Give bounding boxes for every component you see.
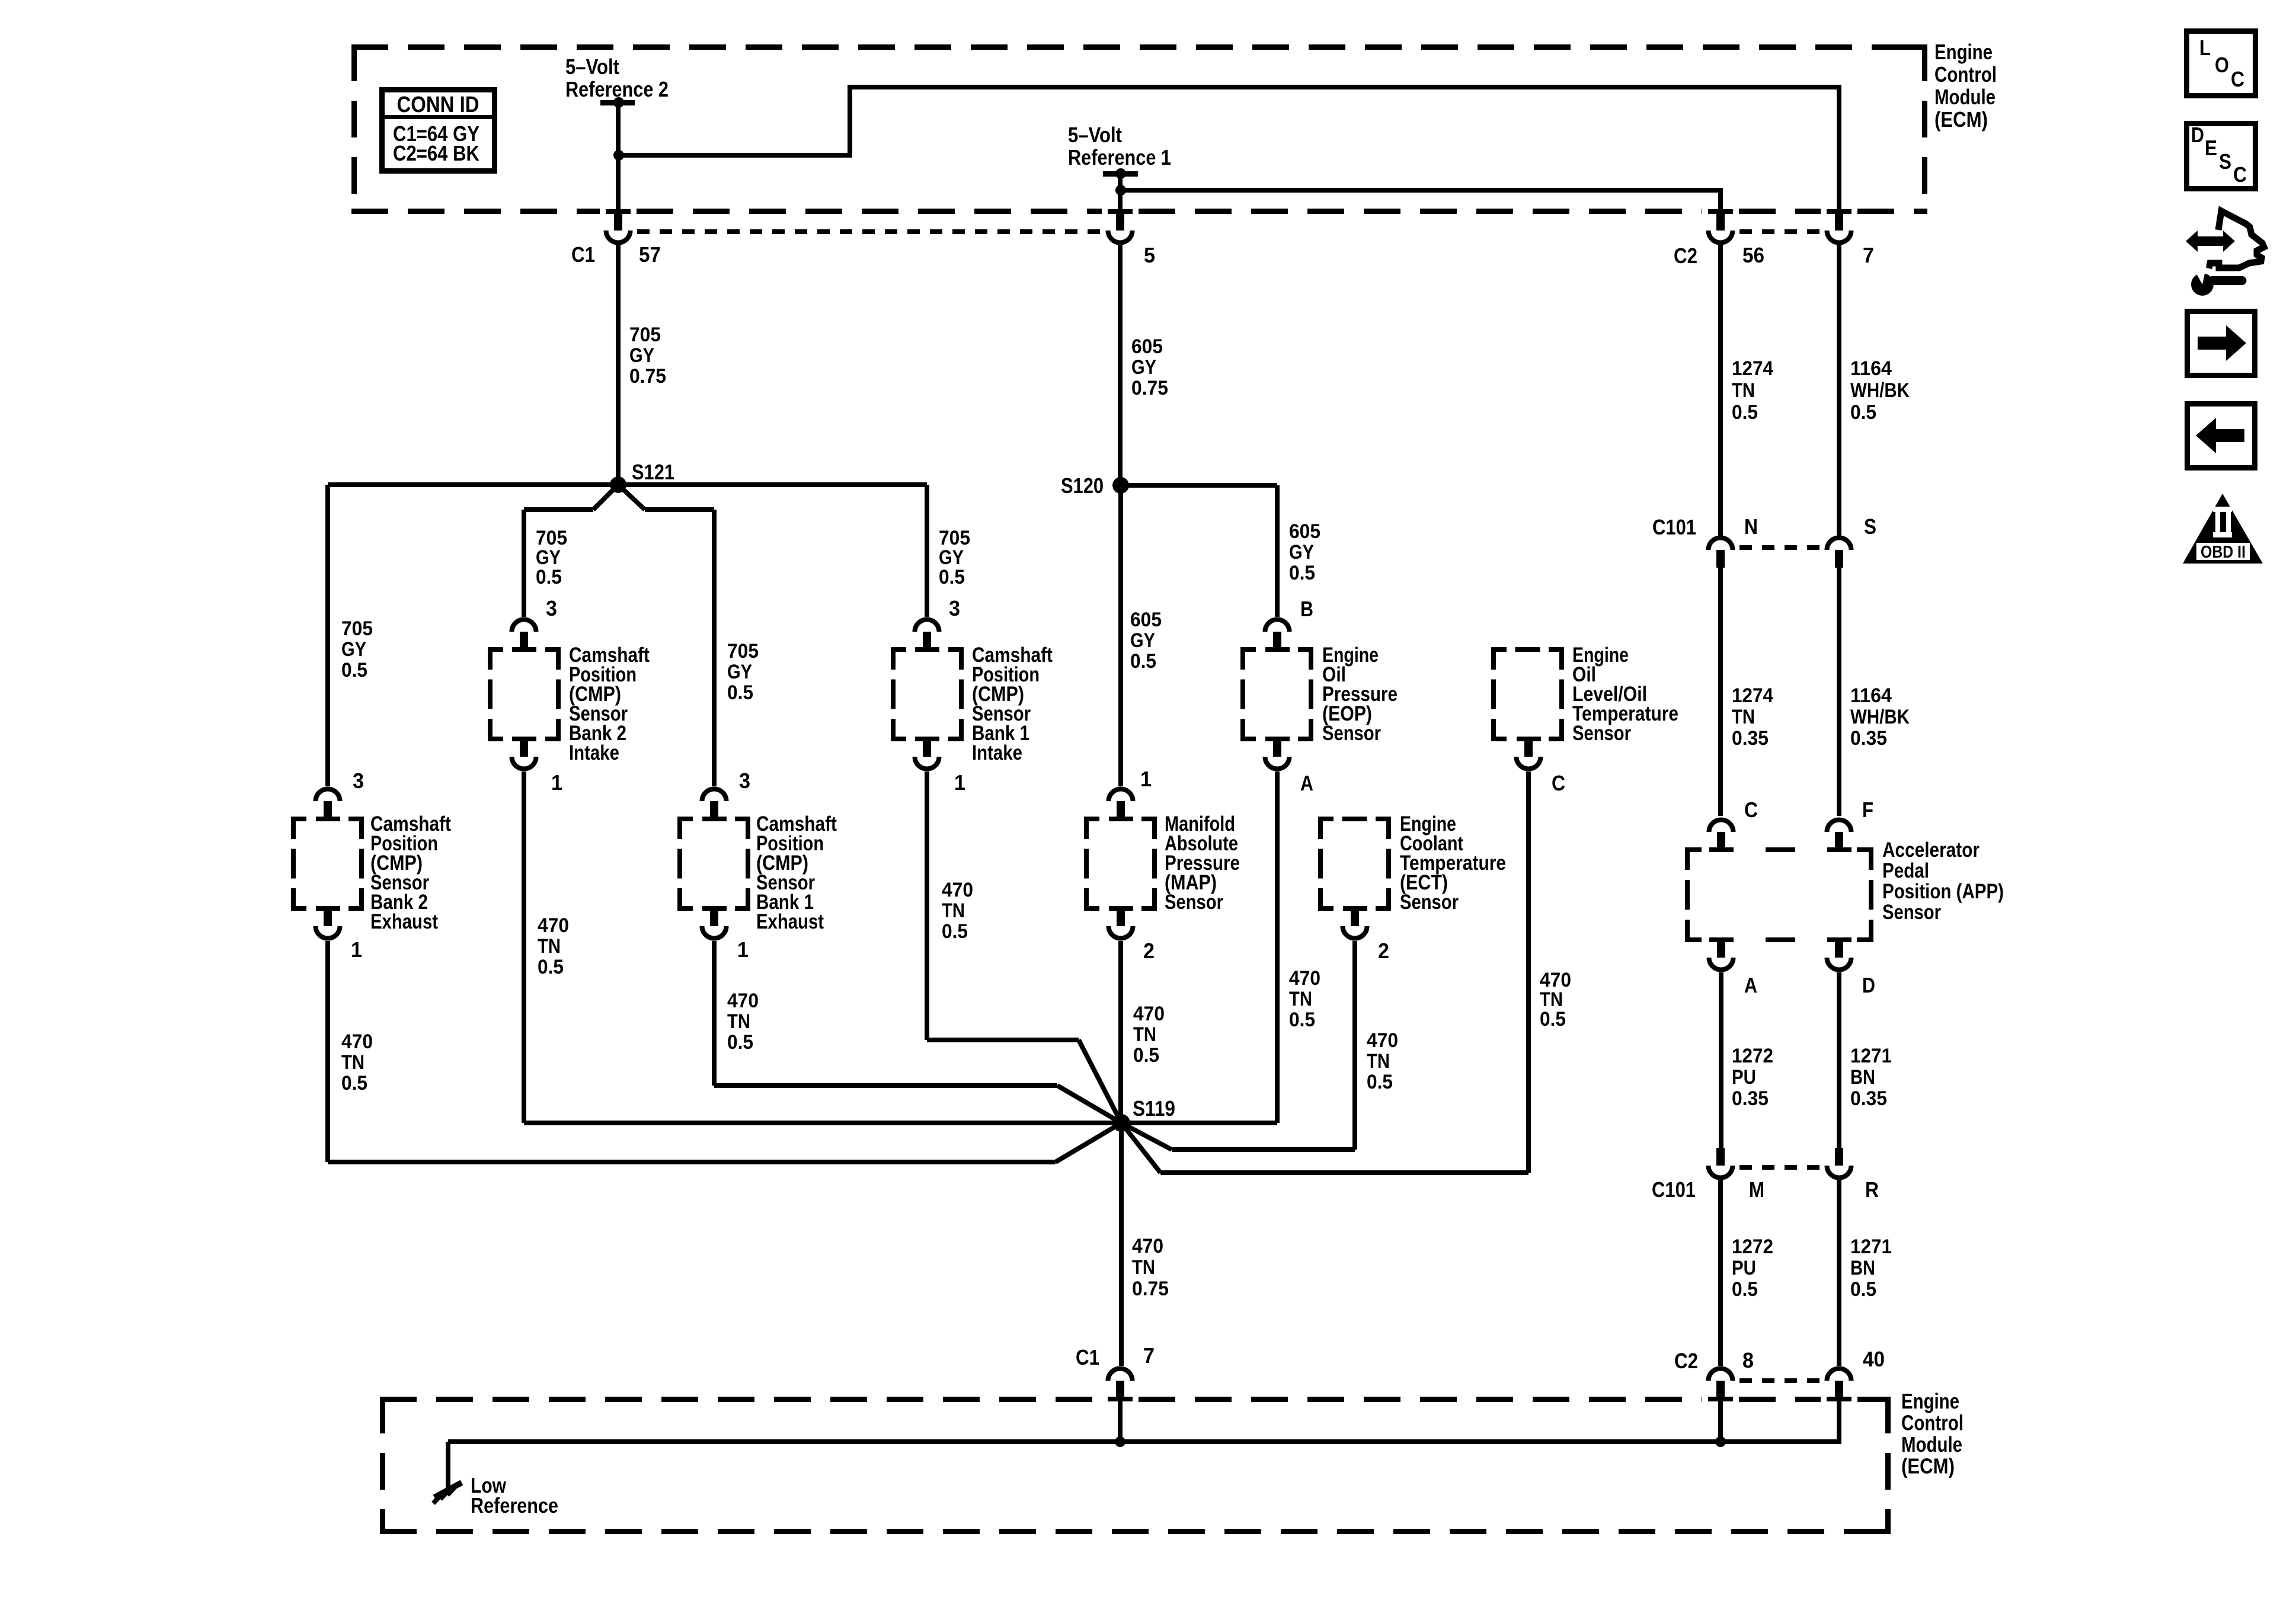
svg-text:PU: PU — [1732, 1066, 1756, 1089]
wire 5V ref1 vertical — [1118, 174, 1123, 190]
icon next-view arrow box — [2188, 312, 2255, 376]
svg-text:40: 40 — [1863, 1347, 1885, 1371]
svg-text:1272: 1272 — [1732, 1235, 1773, 1258]
wire S121 fan left — [593, 485, 618, 510]
connector C2 pin 40 — [1827, 1369, 1851, 1381]
svg-text:0.75: 0.75 — [629, 365, 666, 388]
wire 1274 TN 0.35 (C101-N to APP-C) — [1718, 568, 1723, 816]
svg-text:5–Volt: 5–Volt — [565, 55, 619, 79]
svg-text:1164: 1164 — [1850, 684, 1892, 707]
svg-text:0.5: 0.5 — [1130, 650, 1156, 673]
svg-text:A: A — [1744, 973, 1757, 997]
svg-text:TN: TN — [727, 1010, 750, 1033]
connector C1 pin 5 — [1108, 209, 1133, 214]
pin 1 MAP — [1108, 789, 1133, 802]
wire 470 TN 0.5 (B1 exhaust to S119) — [712, 941, 717, 1086]
svg-text:TN: TN — [1133, 1023, 1156, 1046]
svg-text:7: 7 — [1863, 243, 1874, 267]
svg-text:Position (APP): Position (APP) — [1882, 880, 2004, 903]
ground (low reference) — [433, 1483, 462, 1503]
svg-text:0.5: 0.5 — [341, 1072, 367, 1094]
svg-text:470: 470 — [1289, 967, 1320, 990]
connector C101 pin N — [1709, 538, 1733, 550]
svg-text:L: L — [2199, 36, 2211, 60]
svg-text:3: 3 — [353, 769, 364, 793]
wire 470 TN 0.5 (ECT to S119) — [1352, 941, 1357, 1150]
svg-text:GY: GY — [629, 344, 654, 367]
svg-text:470: 470 — [1132, 1235, 1163, 1257]
terminal 5-Volt Reference 1 — [1103, 171, 1138, 177]
connector C101 pin R — [1835, 1148, 1843, 1166]
svg-text:WH/BK: WH/BK — [1850, 379, 1910, 402]
svg-text:0.5: 0.5 — [1133, 1044, 1159, 1067]
icon prev-view arrow box — [2188, 404, 2255, 468]
svg-text:1: 1 — [551, 770, 562, 795]
pin C oil level sensor — [1517, 737, 1541, 741]
svg-text:Pedal: Pedal — [1882, 859, 1929, 882]
sensor box CMP Bank 2 Exhaust — [291, 817, 306, 821]
wire S121 bus — [328, 482, 927, 487]
svg-text:605: 605 — [1130, 609, 1162, 631]
connector line C101 lower (dotted) — [1739, 1165, 1820, 1170]
wire 1271 BN 0.5 (C101-R to C2-40) — [1837, 1180, 1841, 1366]
wire 1164 WH/BK 0.5 (C2-7 to C101-S) — [1837, 245, 1841, 536]
wire 705 GY 0.5 (to CMP B1 intake) — [925, 485, 929, 617]
connector C2 pin 8 — [1709, 1369, 1733, 1381]
svg-text:S119: S119 — [1133, 1096, 1175, 1121]
sensor box Accelerator Pedal Position (APP) — [1685, 847, 1702, 852]
svg-text:0.5: 0.5 — [727, 681, 753, 704]
sensor box Engine Coolant Temperature (ECT) — [1318, 817, 1334, 821]
wire 470 TN 0.5 (MAP to S119) — [1118, 941, 1123, 1123]
wire 470 TN 0.75 (S119 to C1-7) — [1119, 1123, 1124, 1366]
svg-text:5: 5 — [1144, 243, 1155, 267]
connector C1 pin 7 (bottom) — [1108, 1369, 1133, 1381]
svg-text:B: B — [1300, 597, 1313, 621]
connector line C2 (dotted) — [1739, 229, 1820, 234]
svg-text:S121: S121 — [632, 460, 674, 484]
wire S121 fan right — [618, 485, 645, 510]
svg-text:BN: BN — [1850, 1066, 1875, 1089]
svg-text:OBD II: OBD II — [2201, 543, 2246, 562]
svg-text:Sensor: Sensor — [1572, 722, 1631, 745]
svg-text:Sensor: Sensor — [1165, 891, 1223, 914]
svg-text:Intake: Intake — [972, 741, 1022, 764]
pin 3 CMP B1 intake — [915, 619, 939, 632]
connector C2 pin 56 — [1708, 209, 1733, 214]
wire 705 GY 0.5 (to CMP B2 intake) — [522, 510, 526, 617]
pin 3 CMP B1 exhaust — [702, 789, 727, 802]
svg-text:705: 705 — [629, 324, 661, 346]
svg-text:O: O — [2215, 53, 2229, 77]
svg-text:C2: C2 — [1674, 244, 1697, 268]
svg-text:Sensor: Sensor — [1400, 891, 1459, 914]
wire 470 TN 0.5 (oil level to S119) — [1526, 772, 1531, 1173]
svg-text:C: C — [2231, 67, 2244, 91]
svg-text:S: S — [2219, 149, 2231, 174]
junction 5V ref2 branch — [613, 150, 624, 161]
svg-text:Sensor: Sensor — [1882, 901, 1941, 924]
icon LOC box — [2187, 31, 2256, 96]
svg-text:470: 470 — [942, 879, 973, 901]
svg-text:M: M — [1749, 1177, 1764, 1202]
svg-text:0.5: 0.5 — [1540, 1008, 1566, 1030]
svg-text:TN: TN — [538, 935, 561, 958]
svg-text:0.5: 0.5 — [1289, 562, 1315, 584]
svg-text:1: 1 — [1140, 767, 1152, 791]
connector C1 pin 57 — [606, 209, 631, 214]
svg-text:Control: Control — [1901, 1411, 1964, 1435]
svg-text:0.35: 0.35 — [1732, 727, 1769, 750]
svg-text:0.5: 0.5 — [1367, 1071, 1393, 1093]
svg-text:0.5: 0.5 — [1732, 1278, 1758, 1301]
svg-text:1274: 1274 — [1732, 357, 1773, 380]
svg-text:0.5: 0.5 — [341, 659, 367, 681]
wire 705 GY 0.5 (to CMP B1 exhaust) — [712, 510, 717, 786]
svg-text:3: 3 — [949, 596, 960, 620]
svg-text:Reference: Reference — [471, 1493, 558, 1518]
sensor box Manifold Absolute Pressure (MAP) — [1084, 817, 1099, 821]
svg-text:C101: C101 — [1652, 1177, 1696, 1202]
pin F APP — [1827, 820, 1851, 832]
wire S120 branch right to EOP — [1121, 483, 1277, 488]
svg-text:BN: BN — [1850, 1257, 1875, 1279]
svg-text:S: S — [1864, 514, 1876, 539]
svg-text:1: 1 — [351, 937, 362, 962]
svg-text:7: 7 — [1143, 1343, 1155, 1368]
pin D APP — [1827, 937, 1851, 942]
splice S119 — [1112, 1114, 1130, 1132]
svg-text:1271: 1271 — [1850, 1045, 1892, 1067]
svg-text:PU: PU — [1732, 1257, 1756, 1279]
connector C101 pin S — [1827, 538, 1851, 550]
wire S119 bus left — [524, 1121, 1121, 1125]
wire C2-40 into ECM — [1837, 1401, 1841, 1444]
svg-text:470: 470 — [1133, 1003, 1165, 1025]
pin A EOP — [1265, 737, 1290, 741]
wire 705 GY 0.5 (to CMP B2 exhaust) — [325, 485, 330, 786]
wire C2-8 into ECM — [1718, 1401, 1723, 1442]
svg-text:TN: TN — [1732, 706, 1755, 728]
svg-text:S120: S120 — [1061, 473, 1104, 498]
svg-text:1271: 1271 — [1850, 1235, 1892, 1258]
svg-text:1: 1 — [737, 937, 749, 962]
splice S121 — [610, 476, 626, 493]
svg-text:TN: TN — [1367, 1050, 1390, 1073]
sensor box CMP Bank 1 Intake — [891, 647, 906, 652]
icon OBD II triangle — [2183, 494, 2263, 564]
svg-text:0.5: 0.5 — [942, 920, 968, 943]
pin 1 CMP B2 exhaust — [316, 906, 340, 911]
svg-text:C1: C1 — [1076, 1345, 1099, 1369]
wire 605 GY 0.5 (S120 to MAP) — [1118, 485, 1123, 786]
svg-text:5–Volt: 5–Volt — [1068, 123, 1122, 147]
svg-text:0.75: 0.75 — [1132, 1278, 1169, 1300]
svg-text:D: D — [2191, 123, 2204, 147]
wire S119 bus right to EOP — [1121, 1121, 1277, 1125]
svg-text:0.5: 0.5 — [536, 566, 562, 588]
svg-text:605: 605 — [1289, 520, 1320, 543]
icon DESC box — [2187, 123, 2256, 189]
wire 470 TN 0.5 (B2 intake to S119) — [522, 772, 526, 1123]
wire low reference bus — [448, 1439, 1839, 1444]
svg-text:WH/BK: WH/BK — [1850, 706, 1910, 728]
svg-text:TN: TN — [1289, 988, 1312, 1010]
connector line C2 bottom (dotted) — [1739, 1378, 1820, 1383]
svg-text:A: A — [1300, 771, 1313, 795]
svg-text:1274: 1274 — [1732, 684, 1773, 707]
svg-text:C2=64 BK: C2=64 BK — [393, 141, 479, 165]
connector line C101 upper (dotted) — [1739, 545, 1820, 550]
sensor box CMP Bank 2 Intake — [488, 647, 503, 652]
svg-text:3: 3 — [546, 596, 557, 620]
svg-text:470: 470 — [727, 990, 759, 1012]
svg-text:0.35: 0.35 — [1732, 1087, 1769, 1110]
svg-text:0.5: 0.5 — [939, 566, 965, 588]
wire C1-7 into ECM — [1118, 1401, 1123, 1442]
splice S120 — [1112, 477, 1129, 494]
svg-text:0.5: 0.5 — [1850, 1278, 1876, 1301]
svg-text:TN: TN — [1132, 1256, 1155, 1279]
pin A APP — [1709, 937, 1734, 942]
svg-text:R: R — [1865, 1177, 1879, 1202]
svg-text:0.75: 0.75 — [1131, 377, 1168, 399]
sensor box Engine Oil Pressure (EOP) — [1240, 647, 1256, 652]
ECM bottom dashed box — [380, 1397, 1891, 1534]
wire 470 TN 0.5 (B2 exhaust to S119) — [325, 941, 330, 1162]
ECM top box corner patches — [1904, 44, 1927, 50]
svg-text:Intake: Intake — [569, 741, 619, 764]
svg-text:1272: 1272 — [1732, 1045, 1773, 1067]
svg-text:0.5: 0.5 — [538, 956, 564, 978]
svg-text:1: 1 — [954, 770, 965, 795]
pin 2 ECT — [1343, 906, 1367, 911]
pin B EOP — [1265, 619, 1290, 632]
svg-text:470: 470 — [538, 914, 569, 937]
terminal 5-Volt Reference 2 — [600, 100, 635, 105]
wire 5V ref2 down to C1-57 — [616, 155, 621, 209]
svg-text:GY: GY — [341, 638, 366, 661]
junction dot C2-8 bus — [1715, 1436, 1726, 1447]
pin 3 CMP B2 exhaust — [316, 789, 340, 802]
svg-text:0.5: 0.5 — [1289, 1009, 1315, 1031]
svg-text:E: E — [2205, 136, 2217, 160]
svg-text:3: 3 — [739, 769, 750, 793]
ECM top dashed box (Engine Control Module) — [351, 44, 1927, 214]
svg-text:Engine: Engine — [1901, 1389, 1959, 1413]
wire 5V ref1 down to C1-5 — [1118, 190, 1123, 209]
svg-text:470: 470 — [1367, 1029, 1398, 1052]
svg-text:Module: Module — [1934, 85, 1996, 109]
svg-text:Module: Module — [1901, 1432, 1962, 1457]
connector C2 pin 7 — [1827, 209, 1851, 214]
svg-text:0.35: 0.35 — [1850, 727, 1887, 750]
svg-text:N: N — [1744, 514, 1758, 539]
svg-text:C: C — [2233, 162, 2247, 187]
svg-text:Engine: Engine — [1934, 40, 1993, 64]
wire 1271 BN 0.35 (APP-D to C101-R) — [1837, 972, 1841, 1148]
svg-text:2: 2 — [1378, 939, 1389, 963]
connector line C1 (dotted) — [637, 229, 1101, 234]
wire 1164 WH/BK 0.35 (C101-S to APP-F) — [1837, 568, 1841, 816]
svg-text:GY: GY — [1130, 629, 1155, 652]
pin 1 CMP B1 intake — [915, 737, 939, 741]
svg-text:470: 470 — [341, 1030, 373, 1053]
wire 5V ref2 vertical to junction — [616, 103, 621, 155]
sensor box CMP Bank 1 Exhaust — [677, 817, 693, 821]
svg-text:1164: 1164 — [1850, 357, 1892, 380]
svg-text:Accelerator: Accelerator — [1882, 838, 1980, 862]
svg-text:C: C — [1552, 771, 1565, 795]
sensor box Engine Oil Level/Oil Temperature — [1491, 647, 1507, 652]
wire 5V ref2 branch right — [618, 153, 852, 158]
svg-text:F: F — [1862, 798, 1873, 822]
svg-text:C2: C2 — [1674, 1349, 1698, 1373]
wire 1274 TN 0.5 (C2-56 to C101-N) — [1718, 245, 1723, 536]
pin 2 MAP — [1109, 906, 1133, 911]
svg-text:C101: C101 — [1652, 515, 1696, 539]
svg-text:GY: GY — [1131, 356, 1156, 379]
svg-text:(ECM): (ECM) — [1934, 107, 1988, 132]
svg-text:TN: TN — [1732, 379, 1755, 402]
wire 1272 PU 0.5 (C101-M to C2-8) — [1718, 1180, 1723, 1366]
connector C101 pin M — [1716, 1148, 1725, 1166]
pin 1 CMP B2 intake — [512, 737, 536, 741]
svg-text:CONN ID: CONN ID — [397, 92, 479, 117]
wire 705 GY 0.75 (C1-57 to S121) — [616, 245, 621, 485]
svg-text:Exhaust: Exhaust — [756, 910, 824, 933]
svg-text:TN: TN — [942, 900, 965, 922]
junction dot C1-7 bus — [1115, 1436, 1125, 1447]
ECM bottom box corner patch — [1867, 1529, 1891, 1534]
svg-text:57: 57 — [639, 242, 661, 267]
svg-text:C1: C1 — [571, 242, 595, 267]
svg-text:Control: Control — [1934, 62, 1997, 87]
svg-text:56: 56 — [1742, 243, 1764, 267]
svg-text:D: D — [1862, 973, 1875, 997]
CONN ID table box — [382, 90, 495, 171]
svg-text:2: 2 — [1143, 939, 1155, 963]
wire 1272 PU 0.35 (APP-A to C101-M) — [1719, 972, 1723, 1148]
pin 3 CMP B2 intake — [512, 619, 536, 632]
wire 470 TN 0.5 (EOP to S119) — [1275, 772, 1280, 1123]
pin 1 CMP B1 exhaust — [702, 906, 727, 911]
svg-text:705: 705 — [341, 617, 373, 640]
svg-text:Reference 1: Reference 1 — [1068, 145, 1171, 169]
svg-text:GY: GY — [1289, 541, 1314, 564]
svg-text:0.5: 0.5 — [1732, 401, 1758, 424]
svg-text:TN: TN — [341, 1051, 364, 1074]
svg-text:0.5: 0.5 — [1850, 401, 1876, 424]
pin C APP — [1709, 820, 1734, 832]
svg-text:(ECM): (ECM) — [1901, 1454, 1955, 1478]
icon engine service (double arrow, engine outline, wrench) — [2186, 211, 2264, 296]
svg-text:C: C — [1744, 798, 1758, 822]
wire 5V ref1 branch right to C2-56 — [1120, 188, 1723, 193]
svg-text:8: 8 — [1742, 1348, 1754, 1372]
svg-text:0.5: 0.5 — [727, 1031, 753, 1054]
svg-text:0.35: 0.35 — [1850, 1087, 1887, 1110]
svg-text:Sensor: Sensor — [1322, 722, 1381, 745]
svg-text:605: 605 — [1131, 335, 1163, 358]
svg-text:GY: GY — [727, 661, 752, 683]
svg-text:705: 705 — [727, 640, 759, 662]
wire 605 GY 0.75 (C1-5 to S120) — [1118, 245, 1123, 485]
svg-text:Exhaust: Exhaust — [370, 910, 438, 933]
wire 470 TN 0.5 (B1 intake to S119) — [925, 772, 929, 1040]
junction 5V ref1 branch — [1115, 185, 1126, 196]
